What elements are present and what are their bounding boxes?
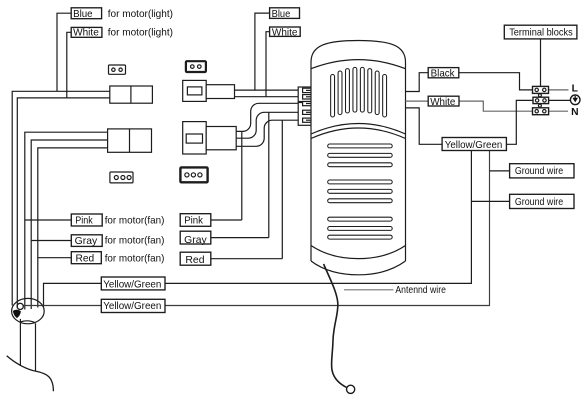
wire gray2 vertical — [211, 112, 269, 237]
wire terminal L stub — [549, 89, 569, 91]
wire ground 1 stub — [490, 170, 510, 172]
label box Red (col2) — [180, 252, 211, 265]
antenna end ring — [347, 385, 355, 393]
wire harness vertical 4 (gray fan wire to connector CN2) — [31, 140, 107, 309]
antenna label leader — [344, 289, 393, 291]
label box Gray (col2) — [180, 231, 211, 244]
2-pin plug J3 (bold) — [186, 61, 206, 72]
connector CN1 housing (2-cell, light) — [110, 86, 153, 103]
label box White (col1) — [71, 27, 102, 37]
canopy ball — [12, 298, 45, 323]
label box Pink (col2) — [180, 214, 211, 227]
wire harness vertical 1 (blue light wire to connector CN1) — [12, 91, 110, 305]
wire white label tap — [67, 32, 71, 98]
svg-text:for motor(fan): for motor(fan) — [105, 254, 165, 265]
terminal inter screw upper — [538, 94, 541, 97]
label box Yellow/Green bottom 1 — [101, 277, 165, 290]
label box White (mains) — [428, 96, 459, 106]
wire red2 vertical — [211, 120, 282, 259]
receiver input connector upper block — [298, 87, 312, 102]
receiver housing outline — [311, 41, 406, 262]
2-pin socket J1 — [109, 65, 126, 74]
receiver horizontal vent slots — [328, 144, 393, 239]
svg-text:for motor(light): for motor(light) — [108, 9, 173, 20]
svg-text:White: White — [73, 28, 99, 39]
wire yellow-green loop 2 (canopy small ring to label stack, gray) — [23, 151, 490, 306]
downrod neck arc — [20, 321, 35, 323]
svg-text:Red: Red — [76, 254, 95, 265]
wire S2 P2 pin2 to receiver — [236, 112, 298, 138]
terminal block L — [533, 86, 549, 93]
wire terminal label leader — [540, 39, 542, 87]
svg-text:Terminal blocks: Terminal blocks — [509, 28, 573, 39]
label box Pink (col1) — [71, 214, 102, 226]
plug P1 body (light circuit to receiver) — [183, 80, 235, 101]
downrod left edge — [19, 319, 21, 366]
label box White (col2) — [270, 27, 301, 36]
motor dome curve — [7, 356, 54, 392]
antenna wire — [324, 264, 347, 387]
receiver vertical vent slots — [331, 67, 387, 117]
terminal block mid — [533, 97, 549, 103]
label box Yellow/Green bottom 2 — [101, 299, 165, 312]
terminal inter screw lower — [538, 104, 541, 107]
earth symbol — [570, 95, 580, 105]
wire pink label tap — [25, 219, 72, 221]
wire blue2 tap — [255, 13, 270, 90]
plug P2 body (fan circuit to receiver) — [183, 122, 237, 154]
label box Yellow/Green (mains) — [442, 138, 506, 151]
wire S3 P2 pin3 to receiver — [236, 120, 298, 146]
svg-text:N: N — [571, 107, 578, 118]
wire white to terminal N — [459, 101, 533, 111]
svg-text:for motor(fan): for motor(fan) — [105, 216, 165, 227]
downrod right edge — [35, 323, 37, 371]
wire harness vertical 3 (pink fan wire to connector CN2) — [25, 132, 108, 309]
wire S1 P2 pin1 to receiver — [236, 103, 298, 131]
wire pair P1 to receiver row1 — [235, 89, 299, 91]
wire yellow-green to terminal mid — [506, 100, 533, 144]
wire ground 2 stub — [471, 200, 509, 202]
wire gray label tap — [31, 240, 71, 242]
wire black from receiver — [406, 73, 429, 92]
wire harness vertical 5 (red fan wire to connector CN2) — [38, 148, 108, 308]
label box Black — [428, 68, 459, 78]
svg-text:Yellow/Green: Yellow/Green — [103, 280, 161, 291]
svg-text:Pink: Pink — [184, 216, 204, 227]
wire blue label tap — [57, 13, 71, 91]
label box Terminal blocks — [504, 25, 577, 39]
svg-text:Antennd wire: Antennd wire — [395, 285, 446, 296]
label box Blue (col2) — [270, 8, 300, 19]
svg-text:for motor(light): for motor(light) — [108, 28, 173, 39]
3-pin plug J4 (bold) — [180, 167, 207, 182]
svg-text:Yellow/Green: Yellow/Green — [103, 301, 161, 312]
svg-text:for motor(fan): for motor(fan) — [105, 236, 165, 247]
canopy screw blob — [13, 310, 21, 318]
svg-text:White: White — [430, 97, 455, 108]
svg-text:White: White — [272, 28, 298, 39]
svg-text:Pink: Pink — [75, 216, 93, 227]
svg-text:Gray: Gray — [184, 235, 207, 246]
wire harness vertical 2 (white light wire to connector CN1) — [17, 98, 110, 308]
receiver ridge band arc upper — [311, 124, 406, 135]
wire pair P1 to receiver row2 — [235, 96, 299, 98]
wire yellow-green from receiver — [406, 108, 443, 144]
svg-text:Blue: Blue — [73, 9, 93, 20]
terminal block N — [533, 108, 549, 115]
wire terminal N stub — [549, 110, 568, 112]
wire terminal mid stub — [549, 99, 571, 101]
3-pin socket J2 — [110, 172, 133, 183]
receiver housing bottom rim — [311, 246, 406, 259]
svg-text:Ground wire: Ground wire — [515, 197, 564, 208]
svg-text:Red: Red — [185, 255, 204, 266]
label box Ground wire 1 — [510, 164, 574, 178]
wire white from receiver — [406, 100, 429, 102]
svg-text:Yellow/Green: Yellow/Green — [445, 140, 503, 151]
connector CN2 housing (2-cell, fan) — [108, 129, 152, 152]
receiver ridge band arc lower — [311, 128, 406, 139]
canopy hanger ring — [17, 303, 23, 309]
label box Blue (col1) — [71, 8, 101, 19]
receiver housing bottom cap — [311, 261, 406, 275]
receiver housing inner top arc — [311, 60, 406, 69]
svg-text:Black: Black — [431, 69, 456, 80]
label box Ground wire 2 — [510, 194, 574, 208]
wire black to terminal L — [459, 73, 533, 90]
wire white2 tap — [266, 32, 270, 97]
receiver input connector lower block — [298, 102, 312, 126]
wire pink2 vertical — [211, 131, 242, 220]
wire red label tap — [38, 257, 72, 259]
label box Red (col1) — [71, 252, 101, 264]
svg-text:Gray: Gray — [75, 236, 98, 247]
svg-text:L: L — [572, 84, 578, 95]
svg-text:Ground wire: Ground wire — [515, 166, 564, 177]
wire yellow-green loop 1 (canopy to label stack) — [44, 151, 472, 308]
svg-text:Blue: Blue — [272, 9, 291, 20]
label box Gray (col1) — [71, 235, 102, 247]
